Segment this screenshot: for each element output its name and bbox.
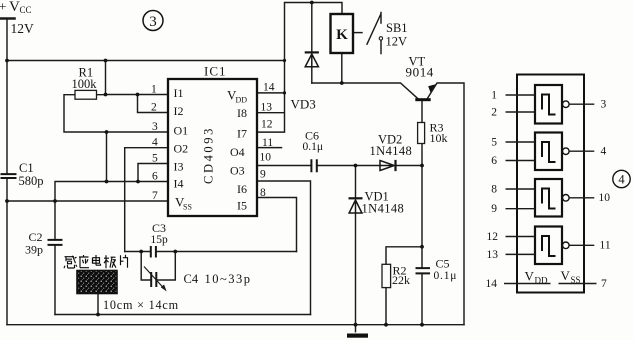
svg-text:SB1: SB1 xyxy=(386,21,408,35)
svg-text:1: 1 xyxy=(151,84,157,96)
svg-text:I7: I7 xyxy=(237,126,247,140)
svg-text:10k: 10k xyxy=(430,131,448,145)
svg-text:6: 6 xyxy=(152,171,158,183)
svg-text:3: 3 xyxy=(601,99,607,111)
svg-text:4: 4 xyxy=(152,137,158,149)
svg-text:10: 10 xyxy=(260,152,272,164)
svg-text:I6: I6 xyxy=(237,182,247,196)
svg-text:1: 1 xyxy=(491,90,497,102)
svg-text:O2: O2 xyxy=(174,142,189,156)
svg-text:10~33p: 10~33p xyxy=(205,272,252,286)
svg-text:1N4148: 1N4148 xyxy=(362,201,405,215)
svg-text:22k: 22k xyxy=(392,273,410,287)
svg-text:14: 14 xyxy=(486,278,498,290)
svg-text:SS: SS xyxy=(183,203,192,212)
svg-text:I4: I4 xyxy=(174,177,184,191)
svg-text:3: 3 xyxy=(152,121,158,133)
svg-text:10cm × 14cm: 10cm × 14cm xyxy=(103,298,179,312)
svg-text:2: 2 xyxy=(151,102,157,114)
svg-text:14: 14 xyxy=(263,82,275,94)
svg-text:15p: 15p xyxy=(151,234,169,246)
svg-text:4: 4 xyxy=(618,173,625,187)
svg-text:580p: 580p xyxy=(19,174,44,188)
svg-text:13: 13 xyxy=(487,249,499,261)
svg-text:I1: I1 xyxy=(174,86,184,100)
svg-text:2: 2 xyxy=(491,107,497,119)
svg-text:DD: DD xyxy=(236,96,248,105)
svg-text:CD4093: CD4093 xyxy=(202,126,216,184)
svg-text:9: 9 xyxy=(491,203,497,215)
svg-text:V: V xyxy=(561,268,571,283)
svg-text:I2: I2 xyxy=(174,104,184,118)
svg-text:SS: SS xyxy=(571,275,581,285)
svg-text:C5: C5 xyxy=(436,256,450,270)
svg-text:1N4148: 1N4148 xyxy=(370,144,413,158)
svg-text:K: K xyxy=(336,27,348,43)
svg-text:VD3: VD3 xyxy=(291,96,316,111)
svg-text:9: 9 xyxy=(260,169,266,181)
svg-text:8: 8 xyxy=(260,187,266,199)
svg-text:+: + xyxy=(0,0,6,14)
svg-text:39p: 39p xyxy=(25,242,43,256)
svg-text:6: 6 xyxy=(491,155,497,167)
svg-text:12: 12 xyxy=(487,231,499,243)
svg-text:8: 8 xyxy=(491,184,497,196)
svg-text:4: 4 xyxy=(601,146,607,158)
svg-text:V: V xyxy=(525,269,535,284)
svg-text:12: 12 xyxy=(261,119,273,131)
svg-text:13: 13 xyxy=(261,102,273,114)
svg-text:5: 5 xyxy=(152,153,158,165)
svg-text:I5: I5 xyxy=(237,198,247,212)
svg-text:O1: O1 xyxy=(174,124,189,138)
svg-text:I3: I3 xyxy=(174,160,184,174)
svg-text:10: 10 xyxy=(599,192,611,204)
svg-text:O4: O4 xyxy=(230,145,245,159)
svg-text:7: 7 xyxy=(152,190,158,202)
svg-text:C4: C4 xyxy=(184,272,199,286)
svg-text:0.1μ: 0.1μ xyxy=(303,141,324,153)
svg-text:12V: 12V xyxy=(386,34,408,48)
svg-text:3: 3 xyxy=(149,14,157,30)
svg-text:7: 7 xyxy=(601,278,607,290)
svg-text:I8: I8 xyxy=(237,106,247,120)
svg-text:0.1μ: 0.1μ xyxy=(434,270,458,282)
svg-text:V: V xyxy=(9,0,20,15)
svg-text:CC: CC xyxy=(20,5,32,15)
svg-text:100k: 100k xyxy=(72,77,98,91)
svg-text:11: 11 xyxy=(262,137,273,149)
svg-text:12V: 12V xyxy=(11,21,35,36)
svg-text:9014: 9014 xyxy=(406,65,434,80)
svg-text:DD: DD xyxy=(535,275,548,285)
svg-text:5: 5 xyxy=(491,137,497,149)
svg-text:C1: C1 xyxy=(19,161,34,175)
svg-text:IC1: IC1 xyxy=(204,64,227,79)
svg-text:11: 11 xyxy=(600,240,611,252)
svg-text:C3: C3 xyxy=(152,221,166,235)
svg-text:O3: O3 xyxy=(230,164,245,178)
